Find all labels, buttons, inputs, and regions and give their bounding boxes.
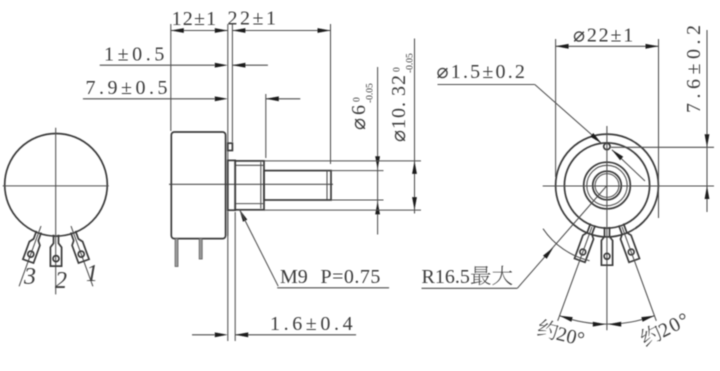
front view right terminal center line bbox=[71, 226, 93, 286]
rear view horizontal center line bbox=[543, 185, 714, 187]
svg-text:0: 0 bbox=[353, 97, 363, 102]
svg-text:-0.05: -0.05 bbox=[366, 83, 376, 103]
svg-text:20°: 20° bbox=[655, 308, 694, 342]
side view threaded bushing M9 bbox=[235, 161, 264, 210]
side view shaft bbox=[264, 171, 331, 200]
dimension 12±1 bbox=[170, 24, 172, 131]
svg-text:⌀10. 32: ⌀10. 32 bbox=[388, 74, 410, 142]
side view shaft axis center line bbox=[169, 183, 333, 185]
dimension 7.6±0.2 (hole offset) bbox=[706, 30, 708, 212]
bushing end chamfer bbox=[260, 162, 262, 209]
rear view outer body circle ⌀22 bbox=[556, 134, 659, 237]
svg-text:M9: M9 bbox=[280, 266, 308, 288]
svg-text:3: 3 bbox=[23, 264, 36, 290]
svg-text:-0.05: -0.05 bbox=[406, 53, 416, 73]
rear view pin hole ⌀1.5 bbox=[604, 143, 610, 149]
shaft end chamfer bbox=[326, 171, 328, 199]
rear view thread circle M9 bbox=[587, 165, 627, 205]
rear view vertical center line bbox=[606, 126, 608, 330]
side view body bbox=[171, 132, 225, 239]
rear view shaft inner circle bbox=[595, 174, 619, 198]
rear view terminal 1 (right) bbox=[619, 224, 640, 263]
dimension 1.6±0.4 (collar length) bbox=[227, 212, 229, 341]
leader M9 P=0.75 (thread spec) bbox=[239, 209, 247, 222]
front view terminal 1 (right) bbox=[71, 231, 89, 263]
side view mounting face line bbox=[227, 141, 229, 161]
svg-text:1±0.5: 1±0.5 bbox=[104, 44, 168, 66]
dimension 1±0.5 (lug length) bbox=[100, 64, 215, 66]
dimension ⌀1.5±0.2 (pin hole) bbox=[438, 84, 535, 86]
hole level extension line bbox=[611, 146, 714, 148]
rear view right terminal center line bbox=[622, 227, 656, 321]
svg-text:⌀6: ⌀6 bbox=[348, 102, 370, 130]
front view left terminal center line bbox=[19, 226, 41, 286]
label 约20° right bbox=[638, 308, 694, 351]
svg-text:20°: 20° bbox=[554, 323, 586, 351]
svg-text:2: 2 bbox=[55, 268, 67, 294]
side view pin (long) bbox=[175, 239, 178, 267]
R16.5最大 rotation arc bbox=[543, 229, 590, 261]
front view horizontal center line bbox=[3, 185, 109, 187]
rear view terminal 2 (center) bbox=[601, 227, 612, 265]
dimension ⌀10.32 0/-0.05 (bushing diameter) bbox=[264, 160, 421, 162]
svg-text:22±1: 22±1 bbox=[228, 8, 279, 30]
svg-text:7.9±0.5: 7.9±0.5 bbox=[86, 77, 171, 99]
bushing thread root lines bbox=[236, 164, 264, 166]
side view collar bbox=[228, 160, 235, 210]
rear view shaft circle ⌀6 bbox=[593, 171, 622, 200]
dimension 22±1 bbox=[231, 24, 233, 142]
svg-text:1.6±0.4: 1.6±0.4 bbox=[270, 313, 356, 335]
front view: potentiometer body circle bbox=[5, 134, 108, 237]
svg-text:P=0.75: P=0.75 bbox=[321, 266, 381, 288]
svg-text:⌀1.5±0.2: ⌀1.5±0.2 bbox=[437, 61, 528, 83]
rear view left terminal center line bbox=[558, 227, 592, 321]
dimension 7.9±0.5 (bushing length) bbox=[83, 98, 215, 100]
svg-text:R16.5: R16.5 bbox=[422, 266, 470, 288]
svg-text:0: 0 bbox=[393, 67, 403, 72]
angular dimension arc 约20° bbox=[560, 316, 655, 324]
svg-text:12±1: 12±1 bbox=[172, 8, 218, 30]
front view terminal 3 (left) bbox=[23, 231, 41, 263]
side view pin (short) bbox=[199, 239, 202, 259]
side view anti-rotation lug bbox=[228, 143, 233, 150]
rear view collar circle ⌀10.32 bbox=[584, 162, 631, 209]
svg-text:1: 1 bbox=[86, 261, 98, 287]
dimension ⌀22±1 (body diameter) bbox=[555, 39, 557, 177]
front view vertical center line bbox=[55, 128, 57, 295]
label 约20° left bbox=[536, 318, 587, 351]
rear view terminal 3 (left) bbox=[575, 224, 596, 263]
svg-text:⌀22±1: ⌀22±1 bbox=[573, 25, 635, 47]
front view terminal 2 (center) bbox=[50, 235, 61, 266]
leader R16.5最大 bbox=[422, 287, 518, 289]
rear view cover circle bbox=[564, 143, 649, 228]
svg-text:7.6±0.2: 7.6±0.2 bbox=[683, 21, 705, 113]
dimension ⌀6 0/-0.05 (shaft diameter) bbox=[331, 170, 384, 172]
